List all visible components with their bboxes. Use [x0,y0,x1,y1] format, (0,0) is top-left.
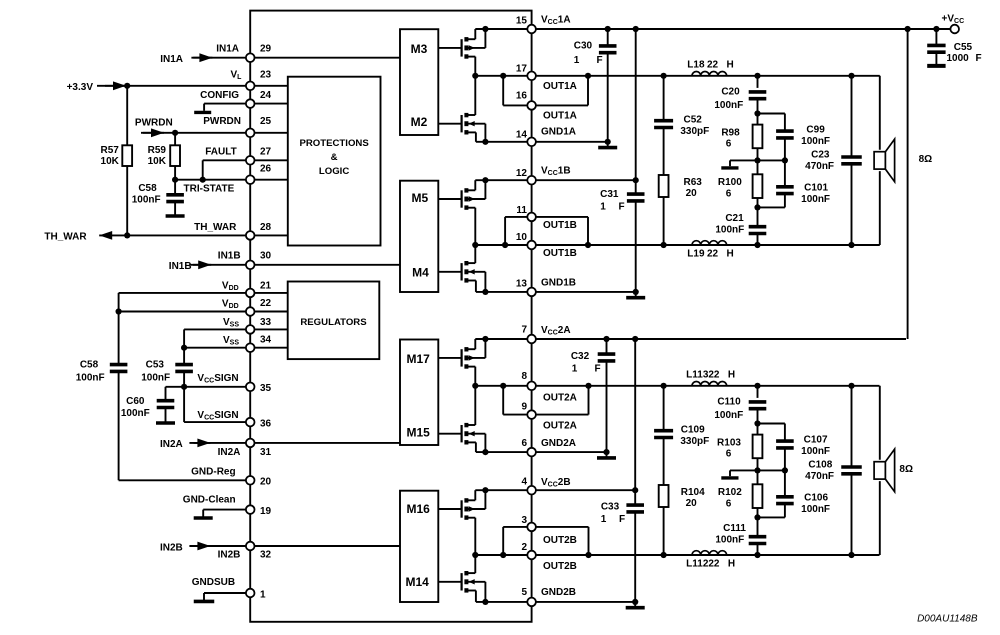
svg-text:20: 20 [686,498,698,509]
svg-text:M5: M5 [411,191,428,205]
svg-text:23: 23 [260,69,272,80]
svg-text:M17: M17 [407,352,431,366]
pin 26 terminal [246,175,255,184]
wire TH_WAR pin28 to logic [250,234,288,236]
svg-text:14: 14 [516,130,528,141]
pin 25 terminal [246,129,255,138]
transistor low-side FET M16/M14 (ch2B) [438,581,461,583]
svg-text:IN1A: IN1A [216,44,239,55]
svg-text:PROTECTIONS: PROTECTIONS [299,138,369,149]
wire VSS pin33 to regulators [184,328,288,330]
svg-text:C32: C32 [571,351,590,362]
svg-text:OUT1A: OUT1A [543,81,577,92]
capacitor C52 330pF [663,76,665,121]
svg-text:GND-Reg: GND-Reg [191,466,235,477]
svg-text:+VCC: +VCC [942,13,965,25]
speaker ch2 8ohm [879,386,881,460]
pin 30 terminal [246,261,255,270]
ground GND1B [635,292,637,298]
svg-text:H: H [726,60,733,71]
wire VCC1A [475,28,907,30]
wire VDD pin22 to regulators [119,311,288,313]
svg-text:17: 17 [516,63,528,74]
wire TRI-STATE node [175,179,250,181]
svg-text:30: 30 [260,251,272,262]
pin 28 terminal [246,231,255,240]
inductor L113 22uH [692,381,727,385]
svg-text:C20: C20 [721,87,740,98]
svg-text:M2: M2 [411,115,428,129]
svg-text:VDD: VDD [222,280,239,292]
capacitor C106 100nF [784,470,786,496]
svg-text:C110: C110 [717,397,741,408]
arrow PWRDN input [143,132,164,134]
svg-text:470nF: 470nF [805,471,834,482]
svg-text:OUT1B: OUT1B [543,248,577,259]
wire OUT2A rail [475,385,879,387]
capacitor C111 100nF [757,517,759,536]
inductor L112 22uH [692,551,727,555]
svg-text:100nF: 100nF [801,446,830,457]
wire CONFIG pin24 to logic [250,103,288,105]
svg-text:C58: C58 [80,360,99,371]
svg-text:10K: 10K [101,156,120,167]
capacitor C30 [607,29,609,46]
IC package outline [250,11,531,622]
svg-text:22: 22 [708,558,720,569]
svg-text:R98: R98 [721,128,740,139]
svg-text:H: H [728,558,735,569]
svg-text:6: 6 [726,189,732,200]
svg-text:PWRDN: PWRDN [135,118,173,129]
svg-text:REGULATORS: REGULATORS [300,317,367,328]
svg-text:IN2A: IN2A [160,439,183,450]
svg-text:C106: C106 [804,493,828,504]
svg-text:C101: C101 [804,183,828,194]
svg-text:H: H [726,248,733,259]
loop OUT1B pins 11/10 [504,217,506,245]
svg-text:9: 9 [521,402,527,413]
wire OUT1A rail [475,75,880,77]
svg-text:4: 4 [521,477,527,488]
pin 16 terminal [527,101,536,110]
capacitor C109 330pF [663,386,665,431]
svg-text:29: 29 [260,44,272,55]
wire VCC2B [475,489,635,491]
wire GND1B [476,291,636,293]
svg-text:L19: L19 [687,248,705,259]
wire VCCSIGN pin36 [184,421,250,423]
svg-text:R59: R59 [148,145,167,156]
node PWRDN/R59 junction [172,130,178,136]
capacitor C99 100nF [758,113,785,115]
wire GND-Clean pin19 [203,509,250,511]
svg-text:100nF: 100nF [715,224,744,235]
svg-text:16: 16 [516,91,528,102]
svg-text:CONFIG: CONFIG [200,90,239,101]
transistor low-side FET M17/M15 (ch2A) [438,433,461,435]
svg-text:IN2A: IN2A [218,447,241,458]
capacitor C20 100nF [754,73,760,79]
svg-text:330pF: 330pF [680,126,709,137]
svg-text:22: 22 [707,60,719,71]
svg-text:GNDSUB: GNDSUB [192,577,235,588]
svg-text:IN1B: IN1B [169,261,192,272]
resistor R104 20 [659,485,669,507]
svg-text:F: F [975,53,981,64]
inductor L19 22uH [692,241,727,245]
pin 1 terminal [246,589,255,598]
svg-text:C52: C52 [684,115,703,126]
svg-text:R57: R57 [101,145,120,156]
svg-text:100nF: 100nF [714,100,743,111]
svg-text:R103: R103 [717,438,741,449]
svg-text:22: 22 [708,370,720,381]
svg-text:R100: R100 [718,177,742,188]
svg-text:VSS: VSS [223,317,239,329]
capacitor C21 100nF [757,207,759,226]
node R57/TH_WAR junction [124,232,130,238]
svg-text:OUT1B: OUT1B [543,220,577,231]
svg-text:100nF: 100nF [801,504,830,515]
pin 27 terminal [246,156,255,165]
pin 34 terminal [246,343,255,352]
capacitor C53 [183,329,185,364]
svg-text:L113: L113 [686,370,709,381]
wire GND-Reg pin20 [119,479,251,481]
svg-text:20: 20 [686,188,698,199]
svg-text:VCCSIGN: VCCSIGN [197,410,238,422]
svg-text:8: 8 [521,371,527,382]
resistor R100 6 [757,160,759,174]
svg-text:11: 11 [516,205,527,216]
svg-text:IN2B: IN2B [160,542,183,553]
wire FAULT pin27 to logic [250,159,288,161]
capacitor C101 100nF [784,160,786,186]
pin 12 terminal [527,176,536,185]
pin 22 terminal [246,307,255,316]
svg-text:10: 10 [516,232,528,243]
loop OUT2B pins 3/2 [502,527,504,555]
svg-text:L18: L18 [687,60,705,71]
svg-text:F: F [619,514,625,525]
svg-text:15: 15 [516,15,528,26]
svg-text:F: F [596,55,602,66]
svg-text:22: 22 [260,298,272,309]
node R59/C58/TRI-STATE junction [172,177,178,183]
svg-text:2: 2 [521,542,527,553]
pin 35 terminal [246,383,255,392]
svg-text:12: 12 [516,168,528,179]
svg-text:C23: C23 [811,150,830,161]
ground GND1A [607,142,609,148]
wire VDD pin21 to regulators [119,292,288,294]
wire GND1A [476,141,608,143]
transistor high-side FET M17/M15 (ch2A) [438,357,461,359]
svg-text:TRI-STATE: TRI-STATE [184,184,235,195]
capacitor C107 100nF [758,423,785,425]
wire +VCC terminal [908,28,951,30]
svg-text:22: 22 [707,248,719,259]
wire IN2A [194,442,400,444]
pin 19 terminal [246,505,255,514]
svg-text:C55: C55 [954,42,973,53]
pin 5 terminal [527,598,536,607]
svg-text:35: 35 [260,383,272,394]
resistor R98 6 [757,114,759,125]
resistor R102 6 [757,470,759,484]
svg-text:GND2B: GND2B [541,587,576,598]
pin 36 terminal [246,418,255,427]
svg-text:GND2A: GND2A [541,438,576,449]
svg-text:VSS: VSS [223,335,239,347]
arrow IN1A input [191,57,212,59]
inductor L18 22uH [692,71,727,75]
wire GNDSUB pin1 [204,592,250,594]
svg-text:36: 36 [260,418,272,429]
wire FAULT jog [203,159,251,161]
transistor high-side FET M5/M4 (ch1B) [438,198,461,200]
wire Zobel midpoint ch1 [730,159,785,161]
svg-text:GND1A: GND1A [541,127,576,138]
wire VCCSIGN pin35 [166,386,251,388]
svg-text:C107: C107 [804,435,828,446]
svg-text:27: 27 [260,147,272,158]
svg-text:OUT1A: OUT1A [543,111,577,122]
svg-text:C53: C53 [146,360,165,371]
wire VCC1B [475,179,635,181]
svg-text:10K: 10K [148,156,167,167]
wire VSS pin34 to regulators [184,347,288,349]
svg-text:M4: M4 [412,266,429,280]
svg-text:34: 34 [260,335,272,346]
resistor R57 [126,86,128,146]
svg-text:13: 13 [516,278,528,289]
ground tap ch2 [729,470,731,476]
svg-text:8Ω: 8Ω [919,154,933,165]
pin 14 terminal [527,138,536,147]
svg-text:C33: C33 [601,502,620,513]
svg-text:6: 6 [521,438,527,449]
wire +VCC rail [907,29,909,339]
svg-text:1: 1 [601,514,607,525]
svg-text:R63: R63 [684,177,703,188]
wire TRI-STATE pin26 to logic [250,179,288,181]
svg-text:8Ω: 8Ω [899,464,913,475]
svg-text:OUT2A: OUT2A [543,393,577,404]
capacitor C31 on VCC bus [635,29,637,194]
svg-text:5: 5 [521,587,527,598]
svg-text:C21: C21 [725,213,744,224]
wire VL pin23 to logic [250,85,288,87]
block M17/M15 [400,340,438,446]
svg-text:1: 1 [574,55,580,66]
ground tap ch1 [729,160,731,166]
svg-text:20: 20 [260,477,272,488]
ground GND-Clean [202,510,204,518]
svg-text:VCC1A: VCC1A [541,14,571,26]
svg-text:TH_WAR: TH_WAR [44,232,87,243]
svg-text:GND1B: GND1B [541,278,576,289]
svg-text:25: 25 [260,116,272,127]
wire VCC2A [475,338,906,340]
wire PWRDN pin25 to logic [250,132,288,134]
node +3.3V/R57 junction [124,83,130,89]
svg-text:26: 26 [260,164,272,175]
svg-text:VDD: VDD [222,298,239,310]
svg-text:VL: VL [231,69,243,81]
block REGULATORS [288,282,380,360]
svg-text:31: 31 [260,447,272,458]
svg-text:C58: C58 [138,183,157,194]
svg-text:VCC2A: VCC2A [541,325,571,337]
wire CONFIG to ground [204,103,250,105]
svg-text:OUT2B: OUT2B [543,535,577,546]
pin 2 terminal [527,551,536,560]
svg-text:470nF: 470nF [805,161,834,172]
svg-text:D00AU1148B: D00AU1148B [917,613,978,624]
pin 9 terminal [527,410,536,419]
svg-text:100nF: 100nF [76,372,105,383]
svg-text:R102: R102 [718,487,742,498]
terminal +VCC [950,25,959,34]
svg-text:GND-Clean: GND-Clean [183,495,236,506]
resistor R59 [174,133,176,146]
arrow IN2A input [189,442,210,444]
wire GND2A [476,451,607,453]
svg-text:PWRDN: PWRDN [203,116,241,127]
capacitor C110 100nF [754,383,760,389]
svg-text:L112: L112 [686,558,709,569]
pin 7 terminal [527,335,536,344]
transistor high-side FET M3 (ch1A) [438,47,461,49]
svg-text:6: 6 [726,138,732,149]
resistor R103 6 [757,424,759,435]
wire IN2B [194,545,400,547]
svg-text:C30: C30 [574,41,593,52]
pin 15 terminal [527,25,536,34]
svg-text:TH_WAR: TH_WAR [194,222,237,233]
wire GND2B [476,601,635,603]
pin 10 terminal [527,241,536,250]
wire TH_WAR [99,234,250,236]
pin 17 terminal [527,72,536,81]
svg-text:VCC2B: VCC2B [541,477,571,489]
ground GND2B [634,602,636,608]
svg-text:C99: C99 [806,125,825,136]
wire IN1B [193,264,400,266]
svg-text:24: 24 [260,90,272,101]
node VDD junction [116,308,122,314]
pin 31 terminal [246,439,255,448]
resistor R63 20 [659,175,669,197]
svg-text:100nF: 100nF [801,136,830,147]
svg-text:100nF: 100nF [715,534,744,545]
svg-text:FAULT: FAULT [205,147,236,158]
wire PWRDN input [141,132,250,134]
block PROTECTIONS & LOGIC [288,77,381,246]
ground GND2A [606,452,608,458]
svg-text:330pF: 330pF [680,436,709,447]
arrow TH_WAR output [99,231,112,240]
arrow IN1B input [190,264,211,266]
capacitor C58 (VDD rail) [118,293,120,365]
transistor low-side FET M5/M4 (ch1B) [438,271,461,273]
svg-text:100nF: 100nF [801,194,830,205]
pin 6 terminal [527,448,536,457]
wire OUT1B rail [475,244,880,246]
pin 20 terminal [246,476,255,485]
svg-text:M15: M15 [407,425,431,439]
svg-text:100nF: 100nF [121,408,150,419]
svg-text:M16: M16 [407,502,431,516]
loop OUT1A pins 17/16 [502,76,504,106]
wire Zobel midpoint ch2 [730,469,785,471]
node VCCSIGN junction [181,384,187,390]
svg-text:32: 32 [260,550,272,561]
svg-text:F: F [618,202,624,213]
capacitor C60 [165,387,167,401]
capacitor C58 (tri-state) [174,180,176,195]
svg-text:1: 1 [572,363,578,374]
transistor high-side FET M16/M14 (ch2B) [438,508,461,510]
svg-text:IN2B: IN2B [218,550,241,561]
arrow IN2B input [189,545,210,547]
svg-text:1: 1 [600,202,606,213]
capacitor C23 470nF [851,76,853,157]
ground GNDSUB [203,593,205,601]
pin 32 terminal [246,542,255,551]
svg-text:LOGIC: LOGIC [319,166,349,177]
svg-text:IN1B: IN1B [218,251,241,262]
svg-text:33: 33 [260,317,272,328]
pin 8 terminal [527,382,536,391]
capacitor C32 [606,339,608,354]
capacitor C108 470nF [851,386,853,467]
svg-text:R104: R104 [681,487,705,498]
svg-text:28: 28 [260,222,272,233]
svg-text:100nF: 100nF [714,410,743,421]
capacitor C33 on VCC bus [634,339,636,505]
svg-text:C108: C108 [808,460,832,471]
svg-text:19: 19 [260,506,272,517]
svg-text:100nF: 100nF [132,195,161,206]
pin 11 terminal [527,213,536,222]
pin 29 terminal [246,53,255,62]
svg-text:100nF: 100nF [141,372,170,383]
node VSS junction [181,345,187,351]
svg-text:M3: M3 [411,42,428,56]
svg-text:6: 6 [726,499,732,510]
svg-text:M14: M14 [406,575,430,589]
pin 23 terminal [246,82,255,91]
svg-text:F: F [594,363,600,374]
pin 3 terminal [527,523,536,532]
svg-text:21: 21 [260,280,272,291]
svg-text:VCC1B: VCC1B [541,165,571,177]
svg-text:7: 7 [521,325,527,336]
svg-text:IN1A: IN1A [160,54,183,65]
svg-text:OUT2A: OUT2A [543,421,577,432]
pin 24 terminal [246,99,255,108]
svg-text:1000: 1000 [946,53,969,64]
svg-text:C109: C109 [681,425,705,436]
svg-text:&: & [331,152,338,163]
svg-text:OUT2B: OUT2B [543,561,577,572]
svg-text:C111: C111 [723,523,746,534]
svg-text:C60: C60 [126,396,145,407]
svg-text:H: H [728,370,735,381]
